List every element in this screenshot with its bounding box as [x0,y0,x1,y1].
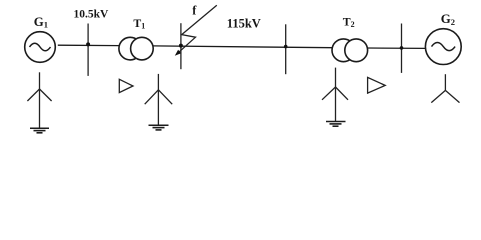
ground (T1 neutral) [149,125,169,130]
transformer T1 [119,16,153,60]
fault node tick [180,23,182,69]
junction dot at fault [179,44,183,48]
svg-text:115kV: 115kV [227,17,261,31]
generator G1 [25,15,56,62]
T2 wye winding, neutral grounded [322,68,348,122]
wire: T1 to T2 (115kV line) [153,46,332,48]
wire: T2 to G2 [368,47,426,49]
ground (T2 neutral) [326,122,346,127]
svg-text:10.5kV: 10.5kV [74,8,110,20]
ground (G1 neutral) [30,128,49,133]
transformer T2 [332,15,368,62]
G2 wye winding (ungrounded) [431,74,459,102]
T2 delta winding [368,77,386,93]
fault lightning arrow f [175,3,217,55]
T1 wye winding, neutral grounded [145,74,173,125]
middle node tick [284,24,288,74]
G1 wye winding, neutral grounded [27,72,51,128]
bus node 10.5kV [74,8,110,76]
wire: G1 to T1 [58,44,119,46]
generator G2 [425,12,461,65]
T1 delta winding [119,79,133,92]
right node tick [400,24,404,73]
